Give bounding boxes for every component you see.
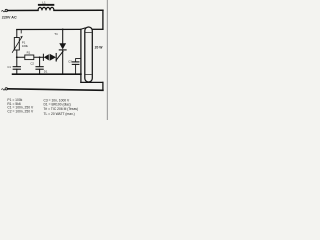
wire mid row [17,56,44,58]
stub near pot top [20,30,22,34]
wire internal top rail [17,28,81,30]
wire N rail [8,89,103,91]
svg-text:100k: 100k [22,44,29,48]
terminal N (tilde) [2,89,5,90]
svg-text:R1: R1 [27,51,31,55]
capacitor C2 lead top [39,57,41,66]
triac Tri triangle [59,43,66,49]
inductor L1 coil [38,7,54,10]
capacitor C3 lead bottom [75,64,77,74]
svg-text:C2 = 100n, 250 V: C2 = 100n, 250 V [7,109,34,113]
svg-text:TL = 20 WATT (max.): TL = 20 WATT (max.) [44,112,75,116]
svg-text:C3: C3 [68,60,72,64]
inductor L1 core bar [38,4,54,6]
svg-text:L1: L1 [42,1,46,5]
wire top right [54,9,103,11]
wire lamp bottom [81,81,103,83]
potentiometer P1 arrow [12,37,22,53]
wire pot top [16,30,18,38]
svg-text:D1 = BR100 (diac): D1 = BR100 (diac) [44,102,71,106]
svg-text:C1: C1 [7,65,11,69]
capacitor C2 plates [36,66,43,68]
diac D1 triangle right [50,54,56,61]
terminal N (circle) [5,88,7,90]
parts list left column [7,98,34,113]
node triac top [62,29,64,31]
capacitor C3 plates [72,61,79,63]
parts list middle column [44,98,79,116]
svg-text:20 W: 20 W [95,45,104,49]
page rule right edge [106,0,108,120]
terminal L (tilde) [2,11,5,12]
wire lamp feed [92,28,103,30]
terminal L (circle) [5,9,7,11]
wire right drop [102,10,104,29]
diac D1 bar left [42,54,44,60]
triac Tri bar [59,49,66,51]
wire top left [8,9,39,11]
lamp electrode top [86,32,92,34]
capacitor C2 lead bottom [39,69,41,74]
capacitor C1 lead top [16,57,18,66]
lamp electrode bottom [86,73,92,75]
svg-text:Tri = TIC 206 M (Texas): Tri = TIC 206 M (Texas) [44,107,79,111]
svg-text:C2: C2 [30,61,34,65]
wire pot bottom [16,50,18,57]
wire gate diagonal [56,51,63,60]
wire right bottom drop [102,82,104,90]
diac D1 bar right [55,54,57,62]
capacitor C3 stub [76,59,81,62]
wire rail to tube shoulder [81,28,85,29]
capacitor C1 lead bottom [16,69,18,74]
lamp TL tube 20W [85,27,93,82]
node mid-pot junction [16,56,18,58]
wire right inner drop [80,29,82,82]
triac Tri top lead [62,29,64,43]
potentiometer P1 body [14,38,19,51]
svg-text:D1: D1 [44,69,48,73]
resistor R1 [25,55,34,60]
svg-text:Tri: Tri [54,32,58,36]
svg-text:220V AC: 220V AC [2,16,17,20]
wire internal bottom rail [13,73,81,75]
node C2 junction [39,56,41,58]
capacitor C1 plates [13,66,20,68]
diac D1 triangle left [44,54,49,60]
triac Tri bottom lead [62,50,64,74]
